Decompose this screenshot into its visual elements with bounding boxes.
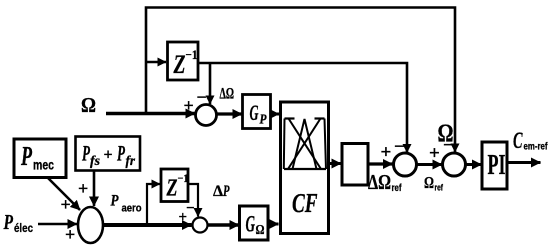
wire PI output — [507, 161, 541, 164]
svg-text:Δ: Δ — [213, 183, 223, 200]
wire riser into bottom Z-1 — [147, 184, 160, 223]
svg-text:CF: CF — [292, 188, 318, 218]
svg-text:G: G — [246, 212, 256, 237]
block Z-1 top — [168, 42, 199, 80]
svg-text:+: + — [65, 225, 75, 245]
svg-text:ΔΩ: ΔΩ — [220, 86, 235, 103]
svg-text:−1: −1 — [186, 47, 198, 62]
wire Paero main line — [103, 223, 192, 227]
wire arrow into top Z-1 — [146, 61, 166, 64]
fuzzy membership glyph diagonal ascending — [288, 119, 321, 170]
svg-text:G: G — [250, 100, 259, 125]
svg-text:PI: PI — [488, 149, 506, 181]
block defuzzifier — [342, 144, 368, 186]
block Z-1 bottom — [161, 169, 188, 202]
svg-text:C: C — [513, 128, 523, 153]
wire GP to CF — [271, 113, 280, 116]
svg-text:+: + — [61, 195, 71, 215]
fuzzy membership glyph baseline — [284, 168, 326, 170]
svg-text:Z: Z — [173, 50, 186, 79]
fuzzy membership glyph top-left bar — [285, 117, 295, 119]
svg-text:−: − — [186, 201, 195, 217]
summing junction power delta — [193, 218, 208, 233]
wire ref sum 2 to PI — [466, 163, 482, 166]
svg-text:mec: mec — [33, 158, 54, 173]
wire Pmec to power sum diagonal — [48, 178, 80, 210]
block G-omega gain — [240, 206, 269, 240]
svg-text:Ω: Ω — [81, 93, 96, 117]
wire G-omega to CF — [268, 223, 279, 226]
svg-text:+: + — [184, 96, 194, 116]
fuzzy membership glyph top-right bar — [315, 117, 325, 119]
svg-text:P: P — [222, 183, 229, 200]
svg-text:élec: élec — [14, 221, 33, 235]
fuzzy membership glyph diagonal descending — [289, 119, 322, 170]
svg-text:P: P — [110, 193, 119, 210]
summing junction reference 2 — [443, 153, 466, 176]
svg-text:ref: ref — [392, 183, 403, 194]
svg-text:−1: −1 — [178, 173, 189, 185]
svg-text:−: − — [197, 87, 207, 107]
svg-text:Z: Z — [166, 176, 178, 202]
svg-text:+: + — [381, 142, 392, 163]
svg-text:P: P — [20, 141, 32, 171]
summing junction reference 1 — [394, 153, 417, 176]
svg-text:fs: fs — [90, 153, 100, 168]
wire top feedback line from speed input to second reference sum — [146, 8, 455, 153]
block PI controller — [482, 142, 507, 189]
svg-text:+: + — [78, 179, 88, 199]
wire Pelec input — [38, 223, 77, 226]
wire speed sum to GP — [217, 112, 243, 115]
svg-text:P: P — [81, 141, 90, 166]
svg-text:P: P — [260, 113, 267, 128]
fuzzy membership glyph middle triangle — [293, 119, 317, 169]
fuzzy membership glyph left edge — [283, 119, 286, 170]
wire Pfs+Pfr to power sum vertical — [93, 171, 96, 207]
svg-text:Ω: Ω — [424, 173, 434, 192]
svg-text:Ω: Ω — [438, 120, 454, 147]
summing junction power ellipse — [78, 207, 103, 243]
fuzzy membership glyph right edge — [325, 119, 327, 170]
svg-text:−: − — [394, 137, 405, 158]
svg-text:+: + — [179, 210, 188, 226]
summing junction speed — [196, 105, 217, 126]
block Pmec — [14, 139, 66, 178]
wire Z-1 output long line to first reference sum — [198, 63, 407, 153]
wire drop from Z-1 output into speed sum — [209, 63, 212, 104]
wire Omega input — [106, 112, 195, 116]
svg-text:em-ref: em-ref — [524, 142, 549, 153]
wire bottom Z-1 output into power delta sum — [188, 184, 198, 217]
block CF fuzzy controller — [281, 102, 329, 234]
svg-text:ref: ref — [435, 183, 444, 193]
svg-text:fr: fr — [126, 153, 136, 168]
svg-text:P: P — [116, 141, 125, 166]
svg-text:ΔΩ: ΔΩ — [368, 170, 391, 194]
wire ref sum 1 to ref sum 2 — [417, 163, 443, 166]
svg-text:P: P — [3, 210, 13, 234]
wire CF to defuzz block — [329, 162, 342, 165]
wire defuzz to first reference sum — [368, 162, 393, 165]
svg-text:Ω: Ω — [256, 223, 265, 238]
svg-text:aero: aero — [122, 203, 142, 215]
svg-text:+: + — [104, 147, 113, 164]
block Pfs+Pfr — [76, 137, 141, 171]
wire delta sum to G-omega — [208, 223, 240, 227]
block GP gain — [243, 95, 271, 129]
